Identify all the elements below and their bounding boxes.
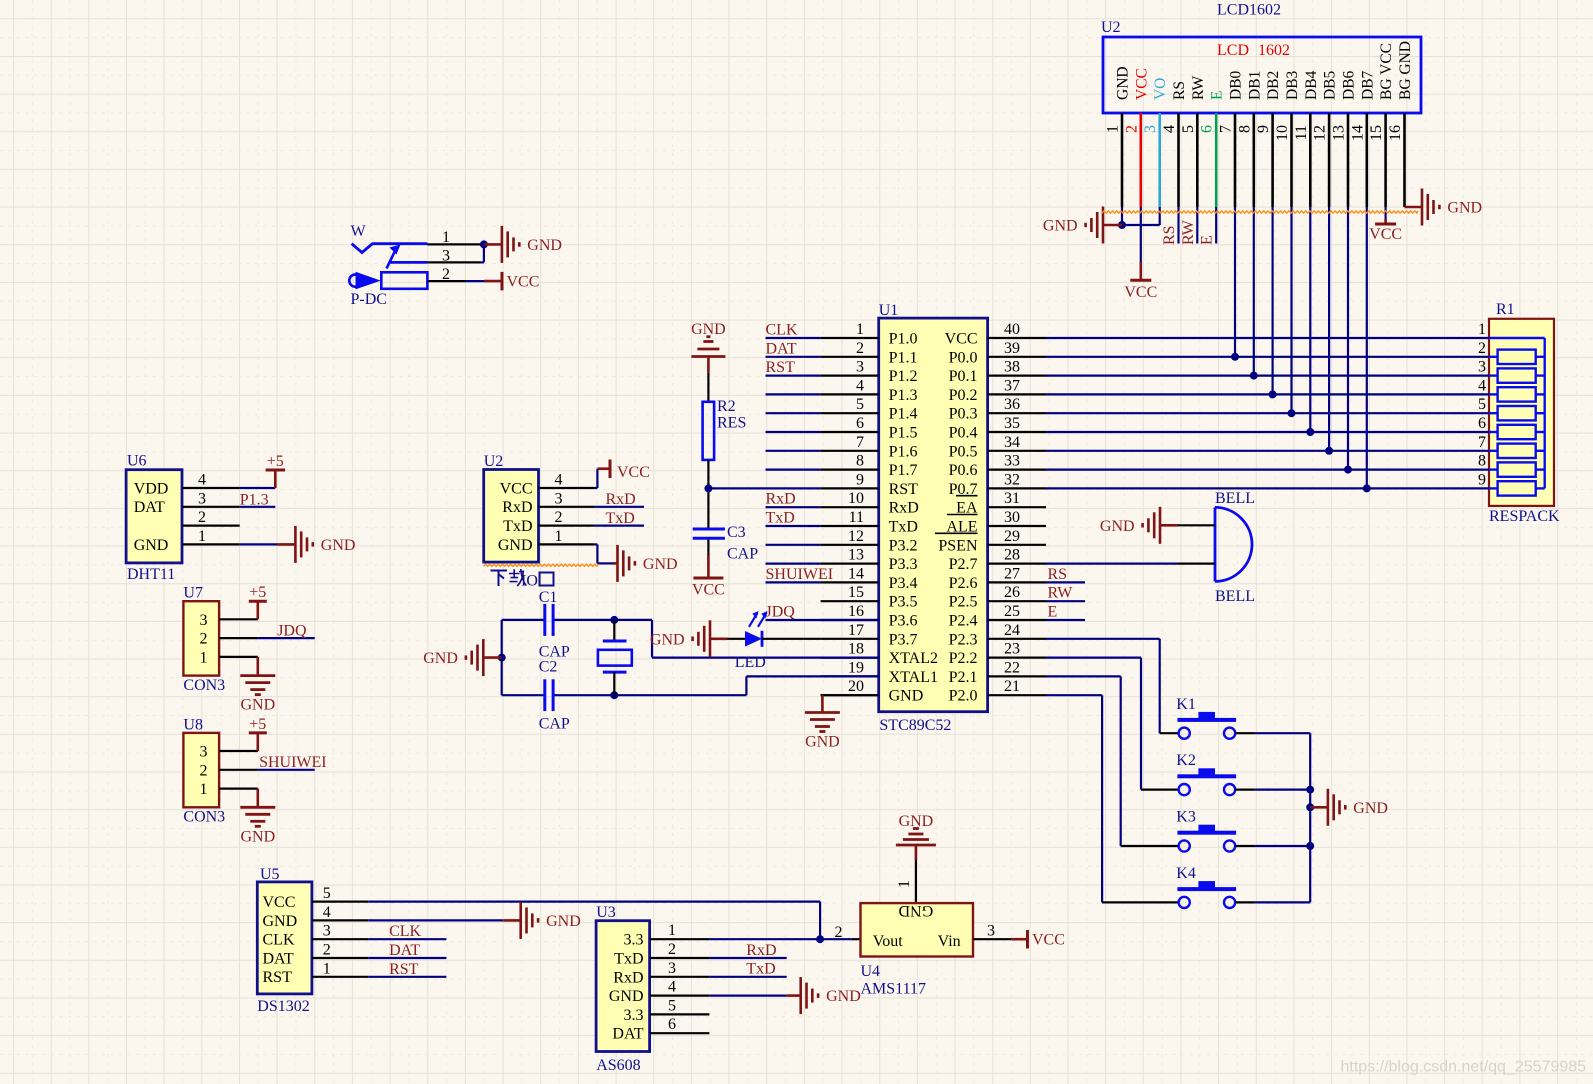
- svg-text:BG GND: BG GND: [1397, 41, 1414, 100]
- svg-text:3: 3: [856, 359, 864, 376]
- svg-text:DAT: DAT: [766, 340, 797, 357]
- svg-text:18: 18: [848, 641, 864, 658]
- svg-text:2: 2: [835, 924, 843, 941]
- svg-text:RS: RS: [1161, 225, 1178, 245]
- svg-text:6: 6: [668, 1016, 676, 1033]
- svg-text:DHT11: DHT11: [127, 566, 175, 583]
- svg-text:TxD: TxD: [503, 518, 532, 535]
- svg-text:4: 4: [856, 377, 864, 394]
- svg-text:7: 7: [1478, 434, 1486, 451]
- svg-text:TxD: TxD: [766, 510, 795, 527]
- svg-text:BG VCC: BG VCC: [1378, 43, 1395, 100]
- svg-text:C1: C1: [539, 589, 558, 606]
- svg-text:5: 5: [856, 396, 864, 413]
- svg-text:16: 16: [1387, 125, 1404, 141]
- svg-text:4: 4: [1161, 125, 1178, 133]
- svg-text:1: 1: [200, 781, 208, 798]
- svg-text:VCC: VCC: [1133, 68, 1150, 100]
- svg-text:K3: K3: [1176, 809, 1196, 826]
- svg-text:GND: GND: [805, 734, 840, 751]
- svg-text:RST: RST: [766, 359, 796, 376]
- svg-text:2: 2: [200, 762, 208, 779]
- svg-text:29: 29: [1004, 528, 1020, 545]
- svg-text:DAT: DAT: [134, 499, 165, 516]
- svg-text:K2: K2: [1176, 752, 1196, 769]
- svg-text:3.3: 3.3: [624, 932, 644, 949]
- svg-text:19: 19: [848, 659, 864, 676]
- svg-text:35: 35: [1004, 415, 1020, 432]
- svg-text:37: 37: [1004, 377, 1020, 394]
- svg-text:15: 15: [848, 584, 864, 601]
- svg-text:1: 1: [856, 321, 864, 338]
- svg-text:4: 4: [555, 472, 563, 489]
- svg-text:GND: GND: [650, 631, 685, 648]
- svg-text:RxD: RxD: [606, 491, 636, 508]
- svg-text:BELL: BELL: [1215, 490, 1255, 507]
- svg-text:11: 11: [849, 509, 864, 526]
- svg-text:GND: GND: [609, 988, 644, 1005]
- svg-text:XTAL1: XTAL1: [889, 669, 938, 686]
- svg-text:24: 24: [1004, 622, 1020, 639]
- svg-text:DB0: DB0: [1228, 70, 1245, 100]
- svg-text:E: E: [1199, 235, 1216, 245]
- svg-text:2: 2: [1478, 340, 1486, 357]
- svg-text:DAT: DAT: [389, 942, 420, 959]
- svg-text:RxD: RxD: [502, 499, 532, 516]
- svg-text:11: 11: [1293, 125, 1310, 140]
- svg-text:31: 31: [1004, 490, 1020, 507]
- svg-text:W: W: [351, 223, 367, 240]
- svg-text:GND: GND: [134, 537, 169, 554]
- svg-text:U1: U1: [879, 302, 899, 319]
- svg-text:5: 5: [323, 885, 331, 902]
- svg-text:P1.4: P1.4: [889, 406, 918, 423]
- svg-text:+5: +5: [249, 584, 266, 601]
- svg-text:+5: +5: [267, 453, 284, 470]
- svg-text:38: 38: [1004, 359, 1020, 376]
- svg-text:LCD: LCD: [1217, 42, 1249, 59]
- svg-text:RS: RS: [1171, 81, 1188, 100]
- svg-text:13: 13: [1331, 125, 1348, 141]
- svg-text:GND: GND: [321, 537, 356, 554]
- svg-text:1: 1: [323, 960, 331, 977]
- svg-text:CLK: CLK: [263, 932, 295, 949]
- svg-text:CON3: CON3: [183, 809, 225, 826]
- svg-text:P1.0: P1.0: [889, 331, 918, 348]
- svg-text:4: 4: [1478, 377, 1486, 394]
- svg-text:VCC: VCC: [1369, 226, 1402, 243]
- svg-text:VCC: VCC: [263, 894, 296, 911]
- svg-text:LED: LED: [735, 654, 766, 671]
- svg-text:E: E: [1048, 604, 1058, 621]
- svg-text:GND: GND: [643, 556, 678, 573]
- svg-text:https://blog.csdn.net/qq_25579: https://blog.csdn.net/qq_25579985: [1341, 1059, 1587, 1076]
- svg-text:GND: GND: [691, 321, 726, 338]
- svg-text:RST: RST: [889, 481, 919, 498]
- svg-text:2: 2: [856, 340, 864, 357]
- svg-text:U5: U5: [260, 866, 280, 883]
- svg-text:U4: U4: [861, 963, 881, 980]
- svg-text:P2.3: P2.3: [949, 631, 978, 648]
- svg-text:1: 1: [668, 922, 676, 939]
- svg-text:1: 1: [1105, 125, 1122, 133]
- svg-text:3: 3: [1478, 359, 1486, 376]
- svg-text:P3.6: P3.6: [889, 613, 918, 630]
- svg-text:IO: IO: [521, 573, 538, 590]
- svg-text:XTAL2: XTAL2: [889, 650, 938, 667]
- svg-text:U3: U3: [596, 904, 616, 921]
- svg-text:DAT: DAT: [612, 1026, 643, 1043]
- svg-text:3.3: 3.3: [624, 1007, 644, 1024]
- svg-text:P0.0: P0.0: [949, 349, 978, 366]
- svg-text:P0.3: P0.3: [949, 406, 978, 423]
- svg-text:RxD: RxD: [889, 500, 919, 517]
- svg-text:DB6: DB6: [1341, 70, 1358, 100]
- svg-text:17: 17: [848, 622, 864, 639]
- svg-text:DB4: DB4: [1303, 70, 1320, 100]
- svg-text:C2: C2: [539, 659, 558, 676]
- svg-text:DB3: DB3: [1284, 70, 1301, 100]
- svg-text:40: 40: [1004, 321, 1020, 338]
- svg-text:6: 6: [856, 415, 864, 432]
- svg-text:21: 21: [1004, 678, 1020, 695]
- svg-text:BELL: BELL: [1215, 588, 1255, 605]
- svg-text:VCC: VCC: [1124, 284, 1157, 301]
- svg-text:P1.1: P1.1: [889, 349, 918, 366]
- svg-text:9: 9: [1478, 471, 1486, 488]
- svg-text:JDQ: JDQ: [766, 604, 796, 621]
- svg-text:36: 36: [1004, 396, 1020, 413]
- svg-text:GND: GND: [498, 537, 533, 554]
- svg-text:2: 2: [198, 509, 206, 526]
- svg-text:1: 1: [896, 880, 913, 888]
- svg-text:P0.4: P0.4: [949, 425, 978, 442]
- svg-text:P2.2: P2.2: [949, 650, 978, 667]
- svg-text:P-DC: P-DC: [351, 291, 387, 308]
- svg-text:6: 6: [1478, 415, 1486, 432]
- svg-text:1: 1: [1478, 321, 1486, 338]
- svg-text:GND: GND: [546, 913, 581, 930]
- svg-text:CON3: CON3: [183, 677, 225, 694]
- svg-text:SHUIWEI: SHUIWEI: [259, 754, 327, 771]
- svg-text:5: 5: [668, 997, 676, 1014]
- svg-text:16: 16: [848, 603, 864, 620]
- svg-text:15: 15: [1368, 125, 1385, 141]
- svg-text:LCD1602: LCD1602: [1217, 2, 1281, 19]
- svg-text:DS1302: DS1302: [257, 998, 309, 1015]
- svg-text:VCC: VCC: [1032, 932, 1065, 949]
- svg-text:34: 34: [1004, 434, 1020, 451]
- svg-text:CLK: CLK: [389, 923, 421, 940]
- svg-text:P0.6: P0.6: [949, 462, 978, 479]
- svg-text:P3.5: P3.5: [889, 594, 918, 611]
- svg-text:U8: U8: [183, 716, 203, 733]
- svg-text:5: 5: [1180, 125, 1197, 133]
- svg-text:2: 2: [668, 941, 676, 958]
- svg-text:RST: RST: [263, 969, 293, 986]
- svg-text:32: 32: [1004, 471, 1020, 488]
- svg-text:RESPACK: RESPACK: [1489, 508, 1560, 525]
- svg-text:12: 12: [848, 528, 864, 545]
- svg-text:U2: U2: [484, 453, 504, 470]
- svg-text:TxD: TxD: [889, 519, 918, 536]
- svg-text:R2: R2: [717, 398, 736, 415]
- svg-text:AMS1117: AMS1117: [861, 981, 927, 998]
- svg-text:U6: U6: [127, 452, 147, 469]
- svg-text:26: 26: [1004, 584, 1020, 601]
- svg-text:33: 33: [1004, 453, 1020, 470]
- svg-text:2: 2: [200, 631, 208, 648]
- svg-text:4: 4: [323, 904, 331, 921]
- svg-text:GND: GND: [1353, 800, 1388, 817]
- svg-text:VCC: VCC: [500, 480, 533, 497]
- svg-text:3: 3: [555, 490, 563, 507]
- svg-text:CAP: CAP: [539, 716, 570, 733]
- svg-text:P2.7: P2.7: [949, 556, 978, 573]
- svg-text:P3.3: P3.3: [889, 556, 918, 573]
- svg-text:R1: R1: [1496, 301, 1515, 318]
- svg-text:CAP: CAP: [727, 546, 758, 563]
- svg-text:RES: RES: [717, 415, 746, 432]
- svg-text:P2.5: P2.5: [949, 594, 978, 611]
- svg-text:1: 1: [555, 528, 563, 545]
- svg-text:RxD: RxD: [766, 491, 796, 508]
- svg-text:GND: GND: [889, 688, 924, 705]
- svg-text:3: 3: [200, 612, 208, 629]
- svg-text:P0.5: P0.5: [949, 443, 978, 460]
- svg-text:3: 3: [200, 744, 208, 761]
- svg-text:2: 2: [555, 509, 563, 526]
- svg-text:P3.2: P3.2: [889, 537, 918, 554]
- svg-text:STC89C52: STC89C52: [879, 717, 951, 734]
- svg-text:VCC: VCC: [692, 582, 725, 599]
- svg-text:VDD: VDD: [134, 480, 169, 497]
- svg-text:SHUIWEI: SHUIWEI: [766, 566, 834, 583]
- svg-text:CLK: CLK: [766, 322, 798, 339]
- svg-text:AS608: AS608: [596, 1057, 640, 1074]
- svg-text:K4: K4: [1176, 865, 1196, 882]
- svg-text:14: 14: [848, 565, 864, 582]
- svg-text:7: 7: [1218, 125, 1235, 133]
- svg-text:P3.7: P3.7: [889, 631, 918, 648]
- svg-text:1: 1: [200, 649, 208, 666]
- svg-text:3: 3: [198, 490, 206, 507]
- svg-text:14: 14: [1349, 125, 1366, 141]
- svg-text:RS: RS: [1048, 566, 1068, 583]
- svg-text:20: 20: [848, 678, 864, 695]
- svg-text:25: 25: [1004, 603, 1020, 620]
- svg-text:P2.4: P2.4: [949, 613, 978, 630]
- svg-text:GND: GND: [1115, 66, 1132, 100]
- svg-text:VCC: VCC: [945, 331, 978, 348]
- svg-text:5: 5: [1478, 396, 1486, 413]
- svg-text:RW: RW: [1048, 585, 1074, 602]
- svg-text:10: 10: [848, 490, 864, 507]
- svg-text:4: 4: [668, 979, 676, 996]
- svg-text:DB5: DB5: [1322, 70, 1339, 100]
- svg-text:E: E: [1209, 91, 1226, 100]
- svg-text:P1.5: P1.5: [889, 425, 918, 442]
- svg-text:DB2: DB2: [1265, 71, 1282, 100]
- svg-text:GND: GND: [423, 650, 458, 667]
- svg-text:2: 2: [323, 942, 331, 959]
- svg-text:3: 3: [987, 922, 995, 939]
- svg-text:4: 4: [198, 472, 206, 489]
- svg-text:P1.3: P1.3: [889, 387, 918, 404]
- svg-text:23: 23: [1004, 641, 1020, 658]
- svg-text:RW: RW: [1180, 219, 1197, 245]
- svg-text:3: 3: [323, 923, 331, 940]
- svg-text:RxD: RxD: [746, 942, 776, 959]
- svg-text:GND: GND: [240, 697, 275, 714]
- svg-text:DB7: DB7: [1359, 70, 1376, 100]
- svg-text:PSEN: PSEN: [938, 537, 978, 554]
- svg-text:DAT: DAT: [263, 950, 294, 967]
- svg-text:12: 12: [1312, 125, 1329, 141]
- svg-text:GND: GND: [1100, 518, 1135, 535]
- svg-text:RxD: RxD: [613, 969, 643, 986]
- svg-text:8: 8: [1236, 125, 1253, 133]
- svg-text:8: 8: [856, 453, 864, 470]
- svg-text:13: 13: [848, 547, 864, 564]
- svg-text:P2.0: P2.0: [949, 688, 978, 705]
- svg-text:P1.3: P1.3: [240, 491, 269, 508]
- svg-text:GND: GND: [1447, 200, 1482, 217]
- svg-text:9: 9: [856, 471, 864, 488]
- svg-text:JDQ: JDQ: [277, 623, 307, 640]
- svg-text:GND: GND: [240, 828, 275, 845]
- svg-text:U7: U7: [183, 585, 203, 602]
- svg-text:TxD: TxD: [606, 510, 635, 527]
- svg-text:TxD: TxD: [746, 961, 775, 978]
- svg-text:P1.7: P1.7: [889, 462, 918, 479]
- svg-text:Vout: Vout: [873, 933, 903, 950]
- svg-text:8: 8: [1478, 453, 1486, 470]
- svg-text:RST: RST: [389, 961, 419, 978]
- svg-text:C3: C3: [727, 524, 746, 541]
- svg-text:P1.2: P1.2: [889, 368, 918, 385]
- svg-text:39: 39: [1004, 340, 1020, 357]
- svg-text:P0.2: P0.2: [949, 387, 978, 404]
- svg-text:3: 3: [1142, 125, 1159, 133]
- svg-text:28: 28: [1004, 547, 1020, 564]
- svg-text:1: 1: [198, 528, 206, 545]
- svg-text:VCC: VCC: [507, 274, 540, 291]
- svg-text:GND: GND: [527, 237, 562, 254]
- svg-text:GND: GND: [1043, 218, 1078, 235]
- svg-text:GND: GND: [899, 902, 934, 919]
- svg-text:2: 2: [1123, 125, 1140, 133]
- svg-text:30: 30: [1004, 509, 1020, 526]
- svg-text:10: 10: [1274, 125, 1291, 141]
- svg-text:GND: GND: [826, 988, 861, 1005]
- svg-text:GND: GND: [263, 913, 298, 930]
- svg-text:6: 6: [1199, 125, 1216, 133]
- svg-text:TxD: TxD: [614, 951, 643, 968]
- svg-text:Vin: Vin: [938, 933, 961, 950]
- svg-text:27: 27: [1004, 565, 1020, 582]
- svg-text:+5: +5: [249, 716, 266, 733]
- svg-text:P3.4: P3.4: [889, 575, 918, 592]
- svg-text:22: 22: [1004, 659, 1020, 676]
- svg-text:7: 7: [856, 434, 864, 451]
- svg-text:P1.6: P1.6: [889, 443, 918, 460]
- svg-text:1602: 1602: [1258, 42, 1290, 59]
- svg-text:RW: RW: [1190, 76, 1207, 100]
- svg-text:K1: K1: [1176, 696, 1196, 713]
- svg-text:VO: VO: [1152, 78, 1169, 100]
- svg-text:DB1: DB1: [1246, 71, 1263, 100]
- svg-text:P0.1: P0.1: [949, 368, 978, 385]
- svg-text:P2.1: P2.1: [949, 669, 978, 686]
- svg-text:9: 9: [1255, 125, 1272, 133]
- svg-text:VCC: VCC: [617, 464, 650, 481]
- svg-text:P2.6: P2.6: [949, 575, 978, 592]
- svg-text:3: 3: [668, 960, 676, 977]
- svg-text:U2: U2: [1101, 19, 1121, 36]
